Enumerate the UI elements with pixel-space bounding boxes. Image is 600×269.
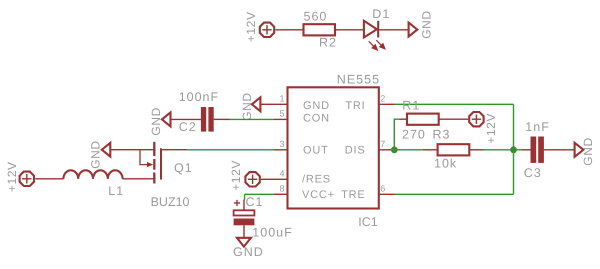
- svg-text:R1: R1: [402, 99, 420, 113]
- svg-text:560: 560: [304, 10, 328, 24]
- pin 8 stub: [274, 193, 288, 195]
- wire net TRI (pin 2): [395, 103, 514, 105]
- svg-text:BUZ10: BUZ10: [151, 195, 190, 209]
- IC NE555 IC1 body: [288, 73, 381, 230]
- svg-text:5: 5: [279, 109, 284, 119]
- svg-text:R3: R3: [433, 128, 451, 142]
- ground (Q1 source): [89, 140, 111, 168]
- wire down to C1: [244, 194, 246, 199]
- svg-text:1: 1: [279, 94, 284, 104]
- capacitor C1 100uF: [234, 195, 293, 239]
- svg-text:R2: R2: [319, 36, 337, 50]
- svg-text:6: 6: [380, 184, 385, 194]
- svg-text:TRI: TRI: [345, 100, 365, 112]
- ground (C2): [149, 107, 171, 135]
- wire L1 to Q1 drain: [123, 178, 155, 180]
- svg-text:100nF: 100nF: [179, 90, 219, 104]
- svg-text:1nF: 1nF: [525, 120, 550, 134]
- svg-text:GND: GND: [149, 107, 163, 135]
- svg-text:GND: GND: [420, 10, 434, 38]
- supply +12V P4 (R1): [469, 112, 498, 144]
- wire node A to R3: [394, 149, 423, 151]
- ground (pin 1): [240, 92, 261, 120]
- svg-text:2: 2: [380, 94, 385, 104]
- wire vertical net right: [513, 104, 515, 194]
- wire net VCC (pin 8): [245, 193, 274, 195]
- pin 5 stub: [274, 118, 288, 120]
- resistor R2 560: [304, 10, 337, 50]
- wire D1 to gnd: [378, 29, 408, 31]
- svg-text:100uF: 100uF: [252, 225, 292, 239]
- svg-text:TRE: TRE: [341, 189, 365, 201]
- wire R2 to D1: [335, 29, 364, 31]
- svg-text:GND: GND: [89, 140, 103, 168]
- junction node A (pin 7): [391, 146, 398, 153]
- junction node B: [510, 146, 517, 153]
- svg-text:7: 7: [380, 139, 385, 149]
- svg-text:C3: C3: [524, 166, 542, 180]
- svg-text:GND: GND: [233, 245, 264, 259]
- svg-text:3: 3: [279, 139, 284, 149]
- svg-text:Q1: Q1: [174, 161, 193, 175]
- ground (top, LED): [409, 10, 434, 38]
- wire net TRE (pin 6): [395, 193, 514, 195]
- svg-text:NE555: NE555: [337, 73, 380, 87]
- wire C2 left to gnd: [171, 118, 201, 120]
- wire gnd to Q1 source: [110, 149, 154, 151]
- wire C1 to gnd: [243, 225, 245, 238]
- svg-text:OUT: OUT: [303, 144, 329, 156]
- svg-text:8: 8: [279, 184, 284, 194]
- svg-text:L1: L1: [108, 184, 124, 198]
- supply +12V P3 (top row): [244, 11, 274, 42]
- supply +12V P1 (left): [5, 161, 34, 192]
- capacitor C2 100nF: [179, 90, 219, 134]
- pin 6 stub: [379, 193, 395, 195]
- resistor R1 270: [400, 99, 469, 142]
- svg-text:C2: C2: [179, 120, 197, 134]
- svg-text:GND: GND: [240, 92, 254, 120]
- svg-text:/RES: /RES: [302, 173, 331, 185]
- svg-text:+12V: +12V: [484, 113, 498, 144]
- pin 3 stub: [274, 149, 288, 151]
- wire net OUT: [187, 149, 274, 151]
- ground (C3): [575, 137, 596, 165]
- transistor Q1 BUZ10: [140, 142, 193, 209]
- LED D1: [364, 7, 390, 50]
- resistor R3 10k: [423, 128, 484, 171]
- svg-text:+12V: +12V: [5, 161, 19, 192]
- wire gnd to pin1: [260, 103, 287, 105]
- ground (C1): [233, 238, 264, 259]
- wire C2 to pin 5: [214, 118, 230, 120]
- svg-text:+12V: +12V: [244, 11, 258, 42]
- svg-text:GND: GND: [303, 100, 330, 112]
- svg-text:270: 270: [402, 128, 426, 142]
- wire supply to L1: [35, 178, 63, 180]
- wire node B to C3: [514, 149, 522, 151]
- capacitor C3 1nF: [522, 120, 575, 180]
- inductor L1: [63, 170, 124, 198]
- svg-text:CON: CON: [303, 113, 330, 125]
- pin 7 stub: [379, 149, 395, 151]
- svg-text:VCC+: VCC+: [302, 189, 335, 201]
- wire supply to R2: [275, 29, 303, 31]
- svg-text:D1: D1: [372, 7, 390, 21]
- svg-text:+12V: +12V: [229, 160, 243, 191]
- svg-text:4: 4: [279, 169, 284, 179]
- svg-text:IC1: IC1: [358, 215, 378, 229]
- pin 2 stub: [379, 103, 395, 105]
- wire R3 to node B: [484, 149, 514, 151]
- svg-text:C1: C1: [246, 195, 264, 209]
- svg-text:GND: GND: [581, 137, 595, 165]
- wire net CON: [230, 118, 274, 120]
- wire supply to pin 4: [261, 178, 288, 180]
- wire Q1 gate: [161, 149, 187, 151]
- svg-text:10k: 10k: [434, 157, 457, 171]
- wire node A up to R1: [394, 119, 399, 150]
- svg-text:DIS: DIS: [345, 144, 366, 156]
- supply +12V P2 (pin 4): [229, 160, 260, 191]
